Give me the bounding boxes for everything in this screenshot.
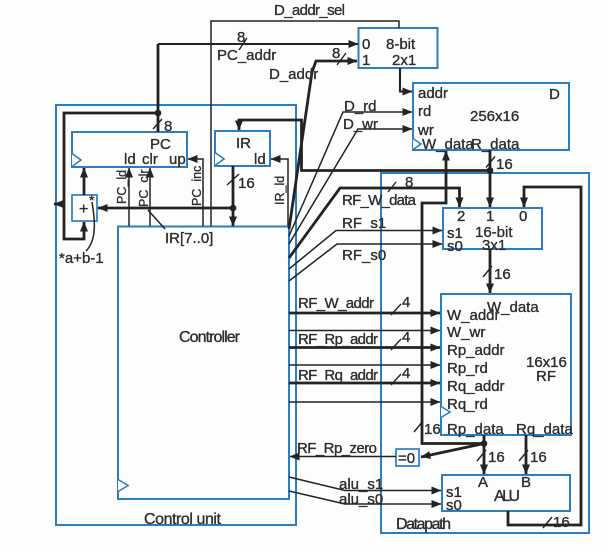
wire D_addr_sel xyxy=(211,21,399,226)
svg-text:s0: s0 xyxy=(447,238,463,255)
svg-text:Rq_rd: Rq_rd xyxy=(447,396,488,413)
svg-text:3x1: 3x1 xyxy=(482,237,506,254)
svg-text:D_addr: D_addr xyxy=(269,66,318,83)
wire PC loop to incrementer xyxy=(64,113,158,239)
wire R_data to IR xyxy=(239,120,490,171)
svg-text:ALU: ALU xyxy=(494,488,520,505)
svg-text:PC_clr: PC_clr xyxy=(137,169,151,207)
svg-text:W_wr: W_wr xyxy=(447,324,485,341)
svg-text:4: 4 xyxy=(402,294,410,311)
wire ALU out feedback to mux0 xyxy=(508,187,581,525)
svg-text:8: 8 xyxy=(237,29,245,46)
node junction PC out xyxy=(155,110,162,117)
svg-text:ld: ld xyxy=(124,151,136,168)
svg-text:8: 8 xyxy=(332,45,340,62)
svg-text:RF_Rp_addr: RF_Rp_addr xyxy=(298,331,378,348)
svg-text:16: 16 xyxy=(530,449,547,466)
svg-text:PC_addr: PC_addr xyxy=(217,47,276,64)
wire PC output vertical xyxy=(157,44,160,132)
wire PC_inc xyxy=(188,159,203,226)
node junction IR out xyxy=(230,205,237,212)
svg-text:Rp_data: Rp_data xyxy=(447,421,504,438)
svg-text:A: A xyxy=(478,474,488,491)
annotation *a+b-1 xyxy=(59,202,104,267)
svg-text:2: 2 xyxy=(457,208,465,225)
svg-text:Rp_rd: Rp_rd xyxy=(447,360,488,377)
slash 16 IR out xyxy=(227,174,239,185)
wire D_rd xyxy=(289,112,412,236)
svg-text:1: 1 xyxy=(362,52,370,69)
svg-text:D_wr: D_wr xyxy=(343,116,378,133)
svg-text:8: 8 xyxy=(164,118,172,135)
node junction R_data xyxy=(487,167,494,174)
wire Rq_data down to ALU B xyxy=(525,435,528,474)
svg-text:1: 1 xyxy=(486,208,494,225)
svg-text:D: D xyxy=(549,86,560,103)
svg-text:8: 8 xyxy=(405,174,413,191)
svg-text:W_addr: W_addr xyxy=(447,307,500,324)
svg-text:alu_s0: alu_s0 xyxy=(339,491,383,508)
wire alu_s0 xyxy=(289,491,441,504)
incrementer +1 xyxy=(72,192,97,221)
svg-text:R_data: R_data xyxy=(471,136,520,153)
wire RF_Rp_addr xyxy=(289,346,440,349)
slash 8 PC_addr xyxy=(239,38,247,50)
svg-text:up: up xyxy=(169,151,186,168)
register PC xyxy=(72,132,187,168)
svg-text:2x1: 2x1 xyxy=(392,52,416,69)
slash 8 PC vertical xyxy=(153,119,162,129)
svg-text:16: 16 xyxy=(238,175,255,192)
svg-text:4: 4 xyxy=(402,329,410,346)
svg-text:16: 16 xyxy=(488,449,505,466)
svg-text:Datapath: Datapath xyxy=(396,516,451,533)
wire IR out to controller xyxy=(232,208,235,226)
svg-text:0: 0 xyxy=(519,208,527,225)
wire PC_clr xyxy=(149,168,151,226)
svg-text:addr: addr xyxy=(418,85,448,102)
svg-text:16: 16 xyxy=(494,266,511,283)
svg-text:16: 16 xyxy=(496,156,513,173)
svg-text:RF_W_addr: RF_W_addr xyxy=(298,295,374,312)
wire IR[7..0] to incrementer xyxy=(98,207,233,210)
leader line IR[7..0] xyxy=(148,210,165,229)
svg-text:clr: clr xyxy=(142,151,158,168)
wire mux3x1 out to RF W_data xyxy=(489,249,492,293)
wire RF_W_data xyxy=(289,188,460,258)
wire RF_Rq_addr xyxy=(289,382,440,385)
svg-text:IR_ld: IR_ld xyxy=(273,176,287,205)
wire Rp_data down to ALU A xyxy=(483,435,486,474)
svg-text:8-bit: 8-bit xyxy=(386,36,416,53)
wire RF_s0 xyxy=(289,244,442,281)
ALU xyxy=(442,474,570,514)
svg-text:RF_Rq_addr: RF_Rq_addr xyxy=(298,367,378,384)
wire RF Rp_rd xyxy=(289,364,440,366)
svg-text:ld: ld xyxy=(254,151,266,168)
wire RF_Rp_zero xyxy=(290,456,396,458)
wire IR_ld xyxy=(271,159,288,226)
svg-text:W_data: W_data xyxy=(422,136,474,153)
node junction Rp_data xyxy=(481,440,488,447)
register file RF 16x16 xyxy=(441,294,573,438)
svg-text:*a+b-1: *a+b-1 xyxy=(59,250,104,267)
wire Rp_data to =0 xyxy=(421,444,484,458)
svg-text:IR: IR xyxy=(236,135,251,152)
wire IR output xyxy=(232,166,235,208)
control unit box xyxy=(56,105,296,525)
register IR xyxy=(215,131,270,168)
svg-text:RF_s0: RF_s0 xyxy=(342,247,386,264)
wire RF W_wr xyxy=(289,330,440,332)
svg-text:RF_Rp_zero: RF_Rp_zero xyxy=(297,440,377,457)
wire PC_ld xyxy=(128,168,130,226)
wire RF_s1 xyxy=(289,231,442,270)
svg-text:PC_inc: PC_inc xyxy=(190,166,204,206)
svg-text:RF: RF xyxy=(536,368,556,385)
wire R_data down to mux1 xyxy=(489,150,492,207)
comparator =0 xyxy=(396,449,419,467)
svg-text:+: + xyxy=(79,201,88,218)
svg-text:Rq_addr: Rq_addr xyxy=(447,378,505,395)
wire D_wr xyxy=(289,129,412,244)
wire PC_addr xyxy=(158,43,358,45)
svg-text:4: 4 xyxy=(402,365,410,382)
svg-text:256x16: 256x16 xyxy=(470,108,519,125)
wire Rp_data to memory W_data xyxy=(422,151,484,444)
svg-text:=0: =0 xyxy=(398,450,415,467)
wire stub arrow left xyxy=(54,203,64,206)
wire D_addr xyxy=(289,61,357,229)
svg-text:PC_ld: PC_ld xyxy=(115,170,129,204)
svg-text:rd: rd xyxy=(418,103,431,120)
mux 8-bit 2x1 xyxy=(359,28,438,69)
svg-text:IR[7..0]: IR[7..0] xyxy=(165,230,213,247)
svg-text:RF_s1: RF_s1 xyxy=(342,215,386,232)
svg-text:16: 16 xyxy=(553,514,570,531)
svg-text:Rp_addr: Rp_addr xyxy=(447,342,505,359)
wire RF Rq_rd xyxy=(289,401,440,403)
svg-text:D_addr_sel: D_addr_sel xyxy=(274,2,345,19)
svg-text:16: 16 xyxy=(424,421,441,438)
svg-text:0: 0 xyxy=(362,36,370,53)
wire incrementer out to PC xyxy=(83,168,86,195)
wire RF_W_addr xyxy=(289,312,440,315)
svg-text:Control unit: Control unit xyxy=(144,511,222,528)
svg-text:s0: s0 xyxy=(446,497,462,514)
data memory D 256x16 xyxy=(413,83,569,153)
datapath box xyxy=(381,173,589,533)
svg-text:D_rd: D_rd xyxy=(344,98,377,115)
svg-text:Controller: Controller xyxy=(179,329,241,346)
wire mux2x1 out to addr xyxy=(400,68,412,92)
wire alu_s1 xyxy=(289,477,441,491)
controller box xyxy=(118,227,289,500)
svg-text:B: B xyxy=(521,474,531,491)
mux 16-bit 3x1 xyxy=(443,208,542,255)
svg-text:RF_W_data: RF_W_data xyxy=(342,192,417,209)
